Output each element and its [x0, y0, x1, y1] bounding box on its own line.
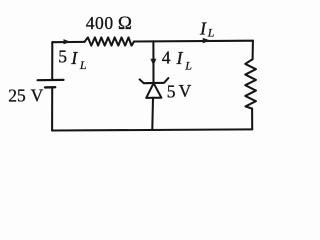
svg-text:V: V: [179, 81, 192, 101]
current arrow 5IL head (top-left, rightward): [64, 39, 71, 44]
current arrow 4IL head (middle branch, downward): [150, 59, 156, 66]
svg-text:L: L: [184, 58, 192, 72]
svg-text:5: 5: [58, 46, 67, 66]
resistor R2 load zigzag (right): [245, 59, 256, 108]
wire right branch upper: [252, 41, 254, 60]
voltage source V1 25V battery long plate: [38, 79, 64, 81]
wire right branch lower: [251, 109, 253, 130]
wire left branch upper (to battery + plate): [51, 42, 53, 79]
svg-text:I: I: [70, 48, 78, 68]
wire left branch lower: [51, 88, 53, 130]
wire middle branch upper: [152, 41, 154, 83]
svg-text:V: V: [31, 85, 44, 105]
current arrow IL head (top-right, rightward): [203, 38, 211, 43]
zener diode D1 cathode bar with bent ends: [140, 78, 169, 83]
wire top-left segment: [52, 41, 84, 43]
wire middle branch lower: [151, 98, 154, 130]
wire top-right segment: [134, 40, 253, 43]
svg-text:25: 25: [8, 86, 26, 106]
svg-text:I: I: [176, 48, 184, 68]
resistor R1 400 ohm zigzag: [85, 37, 135, 45]
svg-text:L: L: [79, 58, 87, 72]
svg-text:4: 4: [162, 47, 171, 67]
svg-text:400: 400: [86, 13, 114, 33]
svg-text:5: 5: [167, 81, 176, 101]
svg-text:Ω: Ω: [118, 13, 132, 34]
zener diode D1 triangle: [146, 83, 161, 98]
wire bottom: [52, 129, 252, 130]
svg-text:I: I: [199, 19, 207, 39]
voltage source V1 25V battery short plate: [45, 86, 55, 89]
svg-text:L: L: [207, 26, 215, 40]
